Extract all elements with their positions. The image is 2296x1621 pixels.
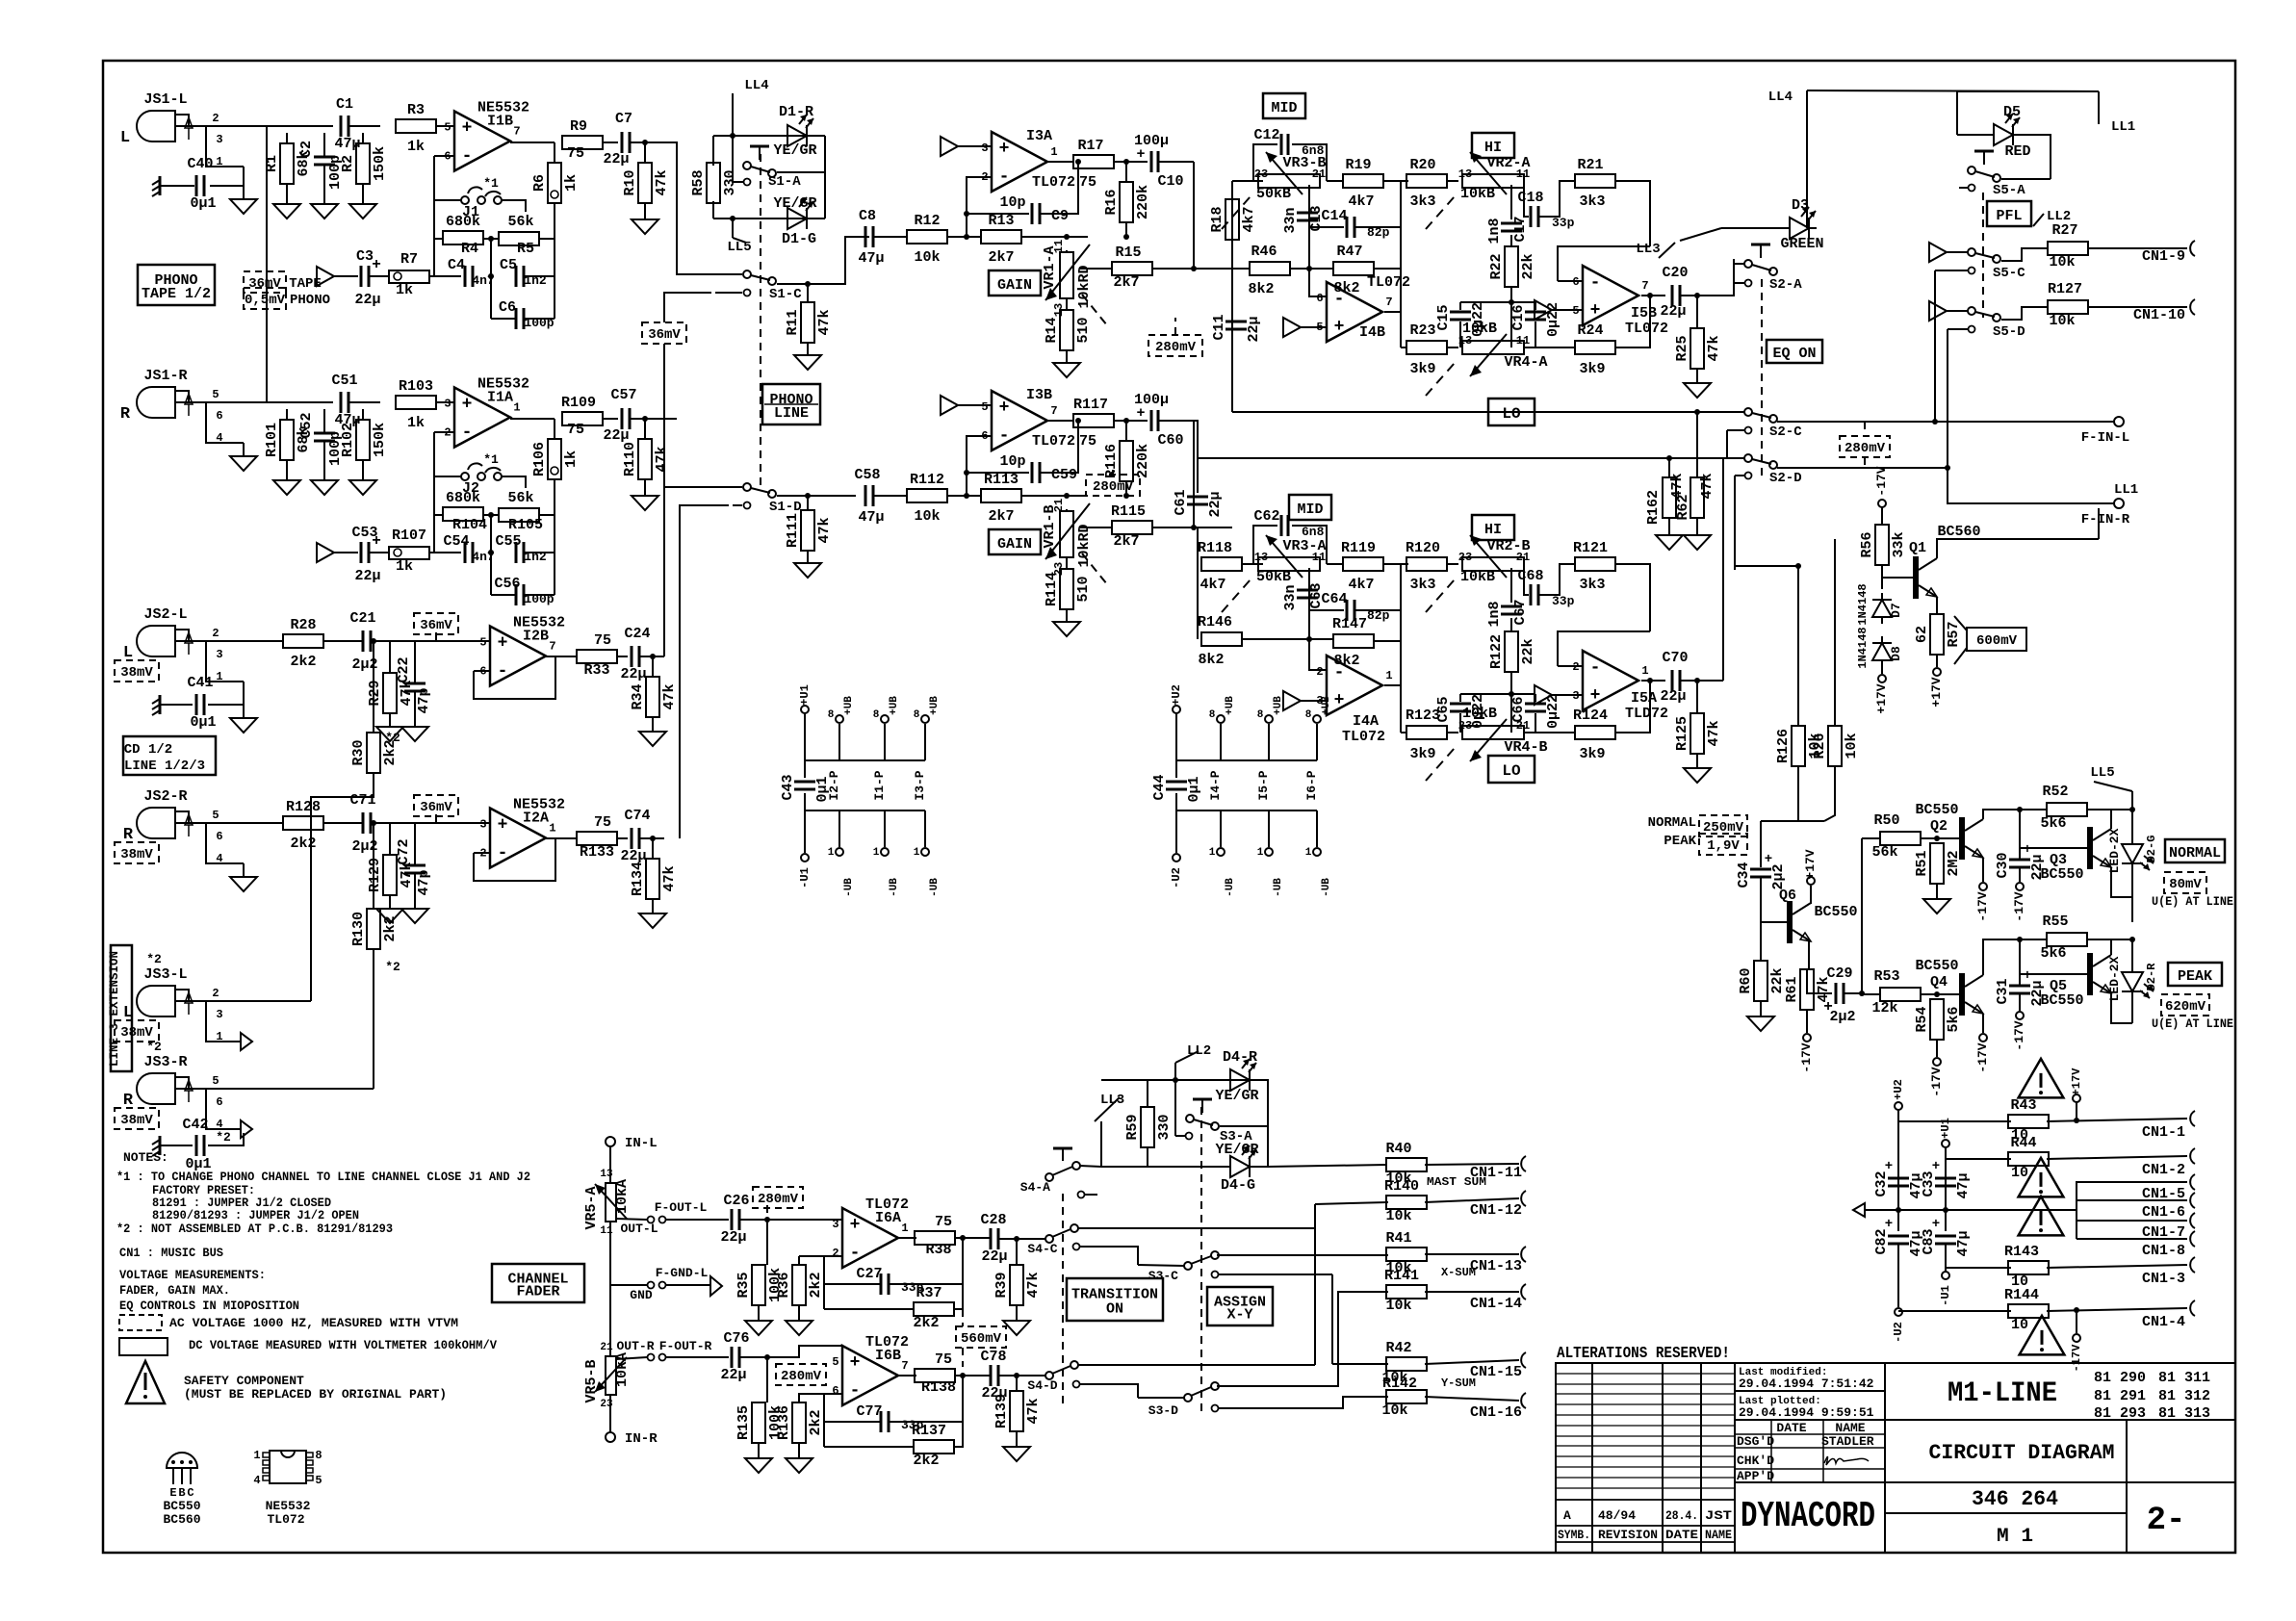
wire <box>1080 268 1112 270</box>
svg-text:R143: R143 <box>2004 1244 2039 1260</box>
capacitor C18 <box>1531 206 1538 227</box>
wire <box>1112 464 1114 477</box>
wire <box>663 344 665 656</box>
wire <box>2110 939 2112 955</box>
svg-text:47k: 47k <box>816 517 833 543</box>
svg-text:+: + <box>1885 1159 1893 1174</box>
wire <box>630 418 677 420</box>
connector CN1-14 <box>1521 1284 1526 1299</box>
wire <box>1316 724 1318 760</box>
capacitor C83 <box>1921 1228 1972 1256</box>
wire <box>1100 1121 1102 1167</box>
svg-text:IN-L: IN-L <box>625 1136 658 1151</box>
wire <box>798 1443 800 1458</box>
label CHANNEL FADER <box>492 1264 584 1302</box>
resistor R17 <box>1073 155 1114 168</box>
svg-text:C10: C10 <box>1157 173 1183 190</box>
resistor R16 <box>1103 182 1151 222</box>
connector CN1-2 <box>2190 1148 2195 1164</box>
wire <box>1125 421 1127 441</box>
svg-text:2k2: 2k2 <box>382 915 399 941</box>
svg-text:LL1: LL1 <box>2111 119 2135 135</box>
wire <box>1956 91 1958 135</box>
svg-text:VR4-A: VR4-A <box>1504 354 1547 371</box>
svg-text:CN1-13: CN1-13 <box>1470 1258 1522 1274</box>
svg-text:C33: C33 <box>1921 1171 1937 1196</box>
pin -UB <box>881 848 889 856</box>
label 0,5mV <box>244 288 286 309</box>
wire <box>804 713 806 778</box>
svg-text:M1-LINE: M1-LINE <box>1948 1377 2057 1410</box>
resistor R124 <box>1575 726 1615 739</box>
svg-text:R104: R104 <box>452 517 487 533</box>
wire <box>1982 1014 1984 1033</box>
svg-text:75: 75 <box>594 814 611 831</box>
svg-text:3: 3 <box>981 142 988 155</box>
wire <box>1668 518 1670 535</box>
wire <box>947 236 981 238</box>
wire <box>799 1394 824 1402</box>
ground <box>1656 535 1683 550</box>
trim circle <box>551 467 558 475</box>
svg-text:R2: R2 <box>340 155 356 172</box>
label 620mV <box>2161 994 2209 1016</box>
svg-text:36mV: 36mV <box>420 800 452 815</box>
svg-text:150k: 150k <box>372 423 388 457</box>
junction <box>488 512 494 518</box>
svg-text:R23: R23 <box>1409 322 1435 339</box>
svg-text:3k3: 3k3 <box>1409 577 1435 593</box>
wire <box>1352 1291 1388 1293</box>
wire <box>483 514 499 516</box>
svg-text:2-: 2- <box>2147 1503 2186 1539</box>
op-amp I3A <box>981 128 1075 192</box>
junction <box>2017 937 2023 942</box>
capacitor C20 <box>1672 285 1680 306</box>
resistor R25 <box>1674 328 1722 369</box>
wire <box>1315 1202 1388 1204</box>
ground <box>401 909 428 923</box>
resistor R139 <box>993 1391 1042 1431</box>
wire <box>1865 1209 2077 1211</box>
ground <box>639 732 666 746</box>
pin <box>1078 1192 1085 1198</box>
svg-text:C60: C60 <box>1157 432 1183 449</box>
wire <box>2020 973 2084 975</box>
wire <box>1152 268 1232 270</box>
wire <box>1175 713 1177 778</box>
svg-text:2k2: 2k2 <box>913 1315 939 1331</box>
wire <box>1680 680 1723 682</box>
svg-text:7: 7 <box>513 125 520 139</box>
wire <box>807 343 809 355</box>
resistor R42 <box>1386 1357 1427 1371</box>
svg-text:10k: 10k <box>914 249 940 266</box>
wire <box>1257 1126 1268 1167</box>
svg-text:LINE: LINE <box>774 405 809 422</box>
wire <box>1125 481 1127 496</box>
wire <box>436 125 454 127</box>
terminal <box>2114 417 2124 426</box>
label 36mV <box>414 795 458 816</box>
wire <box>798 1256 800 1265</box>
wire <box>2047 1119 2187 1121</box>
wire <box>1354 564 1401 610</box>
wire <box>824 1393 842 1395</box>
wire <box>924 810 926 847</box>
svg-text:22µ: 22µ <box>1207 491 1224 517</box>
wire <box>1198 457 1744 459</box>
svg-text:0µ1: 0µ1 <box>1186 776 1202 802</box>
svg-text:C22: C22 <box>396 656 412 682</box>
svg-text:S2-C: S2-C <box>1769 425 1802 440</box>
op-amp I5B <box>1572 266 1668 337</box>
svg-text:50kB: 50kB <box>1256 186 1291 202</box>
svg-text:-: - <box>498 844 508 863</box>
chassis ground <box>152 695 160 715</box>
svg-text:7: 7 <box>549 640 555 654</box>
pushbutton S4-A <box>1062 1148 1064 1161</box>
svg-text:1: 1 <box>873 847 880 859</box>
svg-text:3: 3 <box>216 133 222 146</box>
junction <box>805 493 811 499</box>
resistor R105 <box>499 508 539 522</box>
resistor R115 <box>1112 521 1152 534</box>
wire <box>2047 1156 2187 1159</box>
resistor R47 <box>1333 262 1374 275</box>
wire <box>1425 1253 1519 1255</box>
svg-text:BC550: BC550 <box>1915 802 1958 818</box>
wire <box>1824 766 1835 821</box>
wire <box>954 1376 963 1447</box>
wire <box>1125 222 1127 237</box>
pin <box>1969 326 1975 333</box>
svg-text:R141: R141 <box>1384 1268 1419 1284</box>
wire <box>1862 837 1881 839</box>
svg-text:C12: C12 <box>1253 127 1279 143</box>
wire <box>524 594 555 596</box>
signal arrow <box>1283 691 1301 710</box>
pin <box>1745 473 1752 479</box>
wire <box>1268 1165 1386 1167</box>
label 280mV <box>1148 335 1202 356</box>
junction <box>1075 418 1081 424</box>
potentiometer VR1-A <box>1042 240 1107 325</box>
capacitor C59 <box>1032 462 1040 483</box>
svg-text:C17: C17 <box>1512 216 1529 242</box>
svg-text:R12: R12 <box>914 213 940 229</box>
pin -17V <box>1979 1034 1987 1042</box>
legend AC voltage dashed box <box>119 1315 162 1330</box>
resistor R27 <box>2048 242 2088 255</box>
wire <box>652 838 654 859</box>
svg-text:*2 : NOT ASSEMBLED AT P.C.B. 8: *2 : NOT ASSEMBLED AT P.C.B. 81291/81293 <box>116 1222 393 1236</box>
svg-text:47µ: 47µ <box>1955 1172 1972 1198</box>
wire <box>1806 90 1808 228</box>
svg-text:D5: D5 <box>2003 104 2021 120</box>
wire <box>1067 236 1088 238</box>
svg-text:-17V: -17V <box>2012 891 2026 921</box>
svg-text:11: 11 <box>1516 167 1530 181</box>
svg-text:-17V: -17V <box>1874 466 1889 496</box>
ground <box>745 1458 772 1473</box>
svg-text:+: + <box>498 634 508 654</box>
svg-text:1: 1 <box>1257 847 1264 859</box>
resistor R44 <box>2008 1152 2049 1166</box>
svg-text:+UB: +UB <box>843 696 855 715</box>
resistor R30 <box>350 733 399 773</box>
svg-text:R58: R58 <box>690 169 707 195</box>
svg-text:5: 5 <box>832 1355 838 1369</box>
svg-text:81290/81293 : JUMPER J1/2 OPEN: 81290/81293 : JUMPER J1/2 OPEN <box>152 1208 359 1222</box>
wire <box>1945 1147 1947 1231</box>
svg-text:CN1-9: CN1-9 <box>2142 248 2185 265</box>
wire <box>362 409 364 420</box>
pin -17V <box>1878 500 1886 507</box>
svg-text:I5B: I5B <box>1631 305 1657 322</box>
resistor R26 <box>1812 726 1860 766</box>
svg-text:4k7: 4k7 <box>1241 206 1257 232</box>
svg-text:-17V: -17V <box>1799 1042 1814 1072</box>
ground <box>1003 1321 1030 1335</box>
pin +U2 <box>1173 706 1180 713</box>
svg-text:R127: R127 <box>2048 281 2082 297</box>
wire <box>1897 1110 1899 1231</box>
svg-text:CN1-10: CN1-10 <box>2133 307 2185 323</box>
capacitor C10 <box>1150 151 1153 172</box>
wire <box>474 852 490 854</box>
svg-text:+: + <box>850 1353 861 1373</box>
svg-text:0µ1: 0µ1 <box>190 195 216 212</box>
svg-text:C42: C42 <box>182 1117 208 1133</box>
label HI <box>1472 515 1514 540</box>
svg-text:33p: 33p <box>1552 216 1575 230</box>
wire <box>1425 1164 1519 1165</box>
svg-text:TLD72: TLD72 <box>1625 706 1668 722</box>
pin +UB <box>836 715 843 723</box>
signature <box>1824 1456 1869 1465</box>
svg-text:LO: LO <box>1502 762 1521 780</box>
pin +17V <box>1933 668 1941 676</box>
svg-text:5k6: 5k6 <box>2040 945 2066 962</box>
wire <box>2020 847 2084 849</box>
wire <box>1309 269 1327 296</box>
wire <box>713 135 825 137</box>
wire <box>616 1357 647 1359</box>
wire <box>1733 282 1744 284</box>
svg-text:LINE 3 EXTENSION: LINE 3 EXTENSION <box>107 951 121 1067</box>
chassis ground <box>152 176 160 196</box>
svg-text:1: 1 <box>513 401 520 415</box>
svg-text:YE/GR: YE/GR <box>1215 1142 1258 1158</box>
svg-text:TL072: TL072 <box>1342 729 1385 745</box>
signal arrow <box>941 396 958 415</box>
svg-text:C28: C28 <box>980 1212 1006 1228</box>
potentiometer VR5-A <box>606 1183 616 1222</box>
svg-text:I4B: I4B <box>1359 324 1385 341</box>
svg-text:3k9: 3k9 <box>1409 746 1435 762</box>
wire <box>369 275 389 277</box>
wire <box>2001 248 2048 261</box>
safety warning triangle legend <box>126 1361 165 1403</box>
svg-text:2k2: 2k2 <box>290 654 316 670</box>
svg-text:C62: C62 <box>1253 508 1279 525</box>
wire <box>1920 837 1956 839</box>
svg-text:346 264: 346 264 <box>1972 1487 2058 1511</box>
svg-text:23: 23 <box>1458 719 1472 733</box>
wire <box>2111 867 2132 897</box>
resistor R147 <box>1333 634 1374 648</box>
wire <box>1447 347 1458 348</box>
wire <box>777 237 869 284</box>
svg-text:D2-R: D2-R <box>2145 963 2158 991</box>
wire <box>323 133 325 157</box>
wire <box>2088 306 2187 308</box>
svg-text:10kRD: 10kRD <box>1076 524 1093 567</box>
wire <box>2019 939 2021 985</box>
svg-text:TAPE: TAPE <box>289 276 322 292</box>
wire <box>1615 681 1650 733</box>
wire <box>824 1308 914 1310</box>
wire <box>664 293 711 322</box>
svg-text:-: - <box>462 424 473 443</box>
svg-text:C24: C24 <box>624 626 650 642</box>
svg-text:VR5-A: VR5-A <box>583 1186 600 1229</box>
svg-text:75: 75 <box>567 422 584 438</box>
ground <box>230 456 257 471</box>
wire <box>1194 527 1198 564</box>
capacitor C6 <box>516 308 524 329</box>
wire <box>1066 298 1068 310</box>
wire <box>1524 181 1529 217</box>
resistor R53 <box>1880 988 1921 1001</box>
resistor R21 <box>1575 174 1615 188</box>
pin <box>648 1354 655 1361</box>
wire <box>733 136 743 182</box>
pin <box>1186 1133 1193 1140</box>
gnd arrow <box>1853 1203 1865 1217</box>
capacitor C8 <box>865 226 873 247</box>
svg-text:I1B: I1B <box>487 114 513 130</box>
svg-text:62: 62 <box>1914 626 1930 643</box>
svg-text:YE/GR: YE/GR <box>1215 1088 1258 1104</box>
junction <box>1859 991 1865 996</box>
switch S3-D <box>1184 1394 1192 1402</box>
svg-text:10k: 10k <box>2049 313 2075 329</box>
svg-text:+17V: +17V <box>2070 1068 2083 1096</box>
svg-text:LL3: LL3 <box>1636 242 1660 257</box>
wire <box>1332 1363 1388 1365</box>
wire <box>758 1443 760 1458</box>
svg-text:47k: 47k <box>654 446 670 472</box>
wire <box>474 838 555 881</box>
wire <box>243 863 245 877</box>
svg-text:Q1: Q1 <box>1909 540 1926 556</box>
ground <box>1684 383 1711 398</box>
svg-text:R102: R102 <box>340 423 356 457</box>
svg-text:*1: *1 <box>483 176 499 191</box>
svg-text:IN-R: IN-R <box>625 1431 658 1447</box>
ground <box>349 204 376 219</box>
svg-text:D1-G: D1-G <box>782 231 816 247</box>
svg-text:R129: R129 <box>367 858 383 892</box>
svg-text:SAFETY COMPONENT: SAFETY COMPONENT <box>184 1374 304 1388</box>
svg-text:1: 1 <box>1305 847 1312 859</box>
ground <box>1053 363 1080 377</box>
wire <box>1085 1194 1097 1196</box>
svg-text:F-IN-L: F-IN-L <box>2081 430 2129 446</box>
svg-text:1: 1 <box>253 1449 260 1462</box>
svg-text:C43: C43 <box>780 774 796 800</box>
pin -17V <box>2016 883 2024 890</box>
wire <box>1680 295 1723 296</box>
svg-text:BC550: BC550 <box>163 1499 200 1513</box>
svg-text:CD 1/2: CD 1/2 <box>124 742 172 758</box>
connector CN1-7 <box>2190 1213 2195 1228</box>
wire <box>998 1375 1045 1377</box>
resistor R10 <box>622 163 670 203</box>
wire <box>323 640 363 642</box>
wire <box>1558 280 1583 282</box>
ground <box>1053 622 1080 636</box>
switch S4-C <box>1045 1235 1053 1243</box>
resistor R134 <box>630 859 678 899</box>
svg-text:4k7: 4k7 <box>1200 577 1225 593</box>
chassis ground <box>152 1136 160 1156</box>
wire <box>373 641 374 733</box>
svg-text:C8: C8 <box>859 208 876 224</box>
svg-text:R26: R26 <box>1812 733 1828 759</box>
resistor R15 <box>1112 262 1152 275</box>
svg-text:10p: 10p <box>999 194 1025 211</box>
label 1,9V <box>1699 834 1747 855</box>
svg-text:5: 5 <box>212 388 219 401</box>
wire <box>160 704 193 706</box>
wire <box>1232 411 1744 413</box>
wire <box>1882 565 1910 578</box>
capacitor C40 <box>187 156 216 212</box>
LED D3 <box>1782 207 1817 239</box>
wire <box>609 1285 611 1356</box>
capacitor C4 <box>465 266 473 287</box>
ground <box>786 1321 813 1335</box>
switch S3-C <box>1184 1262 1192 1270</box>
wire <box>652 656 654 677</box>
junction <box>960 1373 966 1378</box>
svg-text:1k: 1k <box>563 450 580 468</box>
signal arrow <box>317 543 334 562</box>
wire <box>1268 810 1270 847</box>
ground <box>1684 535 1711 550</box>
wire <box>429 275 461 277</box>
svg-text:+17V: +17V <box>1803 849 1818 879</box>
capacitor C55 <box>516 542 524 563</box>
svg-text:S1-C: S1-C <box>769 287 802 302</box>
wire <box>1936 884 1938 899</box>
label GAIN <box>989 529 1041 554</box>
wire <box>175 1077 189 1089</box>
svg-text:TL072: TL072 <box>1032 433 1075 450</box>
wire <box>1066 509 1068 511</box>
wire <box>1947 310 1968 312</box>
svg-text:R25: R25 <box>1674 335 1690 361</box>
svg-text:*2: *2 <box>146 952 162 966</box>
svg-text:R4: R4 <box>461 241 478 257</box>
svg-text:S4-D: S4-D <box>1027 1378 1057 1393</box>
wire <box>1374 640 1401 642</box>
svg-text:600mV: 600mV <box>1976 633 2018 649</box>
wire <box>311 773 374 1001</box>
